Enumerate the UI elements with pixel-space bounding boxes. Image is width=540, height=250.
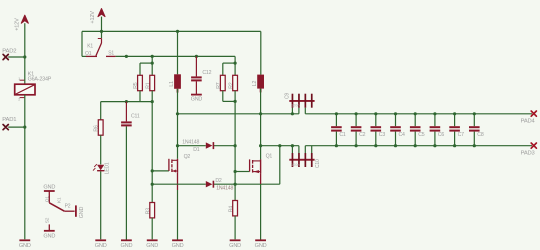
junction C7 top	[453, 112, 456, 115]
junction C4 bottom	[394, 144, 397, 147]
junction C1 bottom	[335, 144, 338, 147]
ground bar (relay O1)	[44, 190, 55, 192]
svg-text:P2: P2	[65, 204, 71, 210]
capacitor C12	[191, 76, 202, 78]
wire L1 to Q2 drain	[177, 89, 179, 159]
capacitor pair C9	[289, 94, 314, 108]
wire R4 to GND	[234, 216, 236, 239]
wire C10 stems	[292, 146, 311, 153]
mosfet Q1	[249, 159, 251, 171]
mosfet Q2	[168, 159, 170, 171]
junction S1/C11 branch	[125, 55, 128, 58]
svg-text:S2: S2	[45, 217, 51, 223]
ground bar (relay S2)	[44, 230, 55, 232]
svg-text:GND: GND	[229, 243, 241, 249]
capacitor pair C10	[289, 153, 314, 167]
wire R5R1 branch	[151, 56, 153, 63]
resistor R1	[150, 75, 155, 90]
svg-text:GND: GND	[79, 207, 85, 219]
inductor L1	[174, 74, 181, 92]
diode D2	[206, 181, 214, 188]
wire PAD1 to node	[8, 126, 25, 128]
wire PAD2 to node	[8, 56, 25, 58]
wire D1 net (left)	[178, 145, 236, 147]
svg-text:GND: GND	[95, 243, 107, 249]
svg-text:C9: C9	[284, 93, 290, 99]
svg-text:+12V: +12V	[15, 18, 21, 31]
capacitor C1	[331, 114, 342, 146]
relay switch pin S1	[106, 55, 116, 57]
junction C2 bottom	[355, 144, 358, 147]
svg-text:C3: C3	[379, 132, 386, 138]
ground GND (R4)	[230, 239, 241, 241]
svg-text:C12: C12	[202, 70, 211, 76]
ground GND (Q2 source)	[172, 239, 183, 241]
capacitor C6	[430, 114, 441, 146]
wire R7R2 bottom bar	[223, 91, 235, 102]
wire rail to L2	[260, 31, 262, 74]
junction C6 top	[433, 112, 436, 115]
wire C9 stems	[292, 108, 305, 114]
relay coil K1 pin1 tick	[18, 77, 24, 81]
pad PAD1 x-symbol	[3, 125, 8, 130]
junction C5 top	[414, 112, 417, 115]
capacitor C8	[469, 114, 480, 146]
ground GND (left column)	[19, 239, 30, 241]
wire Q1 gate	[235, 171, 250, 173]
junction C3 bottom	[374, 144, 377, 147]
wire output rail top (left part)	[178, 113, 299, 115]
pad PAD4 x-symbol	[531, 111, 536, 116]
junction L2/rail1	[259, 112, 262, 115]
power +12V supply symbol (relay switch)	[98, 9, 105, 17]
svg-text:C10: C10	[315, 159, 321, 168]
resistor R2	[233, 75, 238, 90]
wire Q2 gate	[152, 170, 169, 172]
ground GND (Q1 source)	[255, 239, 266, 241]
junction Q2 gate net	[151, 169, 154, 172]
wire R3 to GND	[151, 218, 153, 239]
junction C11 top	[125, 100, 128, 103]
wire R7R2 top bar	[223, 63, 235, 75]
svg-text:S1: S1	[108, 51, 114, 57]
capacitor C11	[121, 121, 132, 123]
junction D1 net/Q1 gate	[234, 144, 237, 147]
junction C8 top	[473, 112, 476, 115]
junction L2/D1 net	[259, 144, 262, 147]
wire Q2 source to GND	[177, 173, 179, 240]
junction D2/R4	[234, 183, 237, 186]
wire S1 net	[116, 56, 236, 63]
wire relay coil to PAD1/GND	[24, 95, 26, 240]
svg-text:GND: GND	[43, 184, 55, 190]
junction at PAD1	[23, 126, 26, 129]
svg-text:PAD2: PAD2	[2, 48, 16, 54]
wire rail to L1	[177, 31, 179, 74]
ground bar (relay P2, rotated)	[75, 205, 77, 216]
diode D1	[206, 142, 214, 149]
wire D2 net	[152, 146, 280, 185]
capacitor C3	[371, 114, 382, 146]
capacitor C12 top pin	[195, 56, 197, 76]
capacitor C5	[410, 114, 421, 146]
relay K1 coil	[15, 84, 35, 95]
junction D2 bypass	[278, 144, 281, 147]
svg-text:GND: GND	[19, 243, 31, 249]
svg-text:1N4148: 1N4148	[216, 186, 233, 192]
ground GND (C11)	[121, 239, 132, 241]
junction C6 bottom	[433, 144, 436, 147]
svg-text:GND: GND	[120, 243, 132, 249]
pad PAD3 x-symbol	[531, 143, 536, 148]
svg-text:1N4148: 1N4148	[182, 139, 199, 145]
junction C1 top	[335, 112, 338, 115]
svg-text:1: 1	[18, 77, 20, 81]
junction R7R2 top	[234, 62, 237, 65]
svg-text:K1: K1	[57, 197, 63, 203]
wire L2 to Q1 drain	[260, 89, 262, 160]
svg-text:GND: GND	[172, 243, 184, 249]
wire R7R2 bottom to R4	[234, 101, 236, 200]
wire +12V rail (top)	[82, 31, 261, 56]
junction at +12V/PAD2	[23, 55, 26, 58]
resistor R6	[98, 120, 103, 135]
svg-text:C6: C6	[438, 132, 445, 138]
relay coil K1 pin2 tick	[18, 98, 24, 102]
svg-text:Q2: Q2	[184, 154, 191, 160]
svg-text:C2: C2	[359, 132, 366, 138]
wire C11 to GND	[125, 126, 127, 239]
ground GND (R3)	[147, 239, 158, 241]
relay switch K1 pin P1 tick	[98, 38, 102, 40]
wire +12V to relay coil	[24, 23, 26, 84]
capacitor C2	[351, 114, 362, 146]
capacitor C11 top pin	[125, 102, 127, 122]
svg-text:D2: D2	[215, 178, 222, 184]
wire R6 to LED1	[100, 135, 102, 164]
junction L1/D1 net	[176, 144, 179, 147]
junction +12V on rail	[100, 30, 103, 33]
svg-text:C1: C1	[339, 132, 346, 138]
svg-text:G6A-234P: G6A-234P	[28, 77, 52, 83]
junction R5R1 top	[151, 62, 154, 65]
junction C5 bottom	[414, 144, 417, 147]
resistor R3	[150, 203, 155, 218]
wire LED1 to GND	[100, 171, 102, 239]
svg-text:GND: GND	[43, 234, 55, 240]
power +12V supply symbol (left)	[21, 15, 28, 23]
junction L1/rail1	[176, 112, 179, 115]
capacitor C4	[390, 114, 401, 146]
junction Q1 gate	[234, 170, 237, 173]
junction L1 on +12V rail	[176, 30, 179, 33]
resistor R7	[220, 75, 225, 90]
svg-text:C11: C11	[131, 113, 140, 119]
relay contact pin P2	[64, 210, 74, 212]
svg-text:Q1: Q1	[266, 154, 273, 160]
relay switch pin O1	[86, 55, 97, 57]
svg-text:2: 2	[18, 98, 20, 102]
svg-text:GND: GND	[146, 243, 158, 249]
junction D2 net	[151, 183, 154, 186]
svg-text:D1: D1	[193, 147, 200, 153]
wire R5R1 bottom bar	[140, 91, 152, 102]
svg-text:PAD3: PAD3	[521, 150, 535, 156]
svg-text:C5: C5	[418, 132, 425, 138]
resistor R5	[138, 75, 143, 90]
junction C4 top	[394, 112, 397, 115]
relay contact pin S2	[48, 224, 50, 230]
ground bar (C12)	[191, 94, 202, 96]
capacitor C7	[449, 114, 460, 146]
svg-text:L1: L1	[169, 81, 175, 87]
relay switch K1 arm	[96, 39, 102, 56]
inductor L2	[257, 75, 264, 93]
wire Q1 source to GND	[260, 173, 262, 239]
junction C8 bottom	[473, 144, 476, 147]
svg-text:C7: C7	[458, 132, 465, 138]
svg-text:PAD1: PAD1	[2, 117, 16, 123]
junction C7 bottom	[453, 144, 456, 147]
junction C3 top	[374, 112, 377, 115]
wire +12V arrow to rail	[101, 17, 103, 39]
svg-text:C4: C4	[399, 132, 406, 138]
junction R7R2 bottom	[234, 100, 237, 103]
svg-text:GND: GND	[255, 243, 267, 249]
ground GND (LED1)	[95, 239, 106, 241]
svg-text:100n: 100n	[291, 163, 299, 167]
junction C10 left	[291, 144, 294, 147]
svg-text:+12V: +12V	[90, 11, 96, 24]
svg-text:PAD4: PAD4	[521, 118, 536, 124]
svg-text:GND: GND	[191, 97, 203, 103]
svg-text:LED1: LED1	[105, 162, 111, 174]
capacitor C12 bottom pin	[195, 81, 197, 94]
pad PAD2 x-symbol	[3, 54, 8, 59]
junction R5R1 bottom	[151, 100, 154, 103]
junction C9 left	[291, 112, 294, 115]
junction S1/C12 branch	[195, 55, 198, 58]
wire output rail top (right part)	[305, 113, 532, 115]
led LED1	[93, 164, 104, 171]
relay contact arm	[49, 203, 64, 211]
svg-text:K1: K1	[87, 44, 93, 50]
wire output rail bottom	[261, 145, 532, 147]
svg-text:100n: 100n	[291, 104, 299, 108]
wire divider mid net	[101, 102, 153, 120]
wire R5R1 top bar	[140, 63, 152, 75]
junction S1/R5R1 branch	[151, 55, 154, 58]
svg-text:C8: C8	[477, 132, 484, 138]
resistor R4	[233, 201, 238, 216]
relay contact pin O1	[48, 191, 50, 203]
junction C2 top	[355, 112, 358, 115]
wire R5R1 bottom to R3	[151, 102, 153, 203]
